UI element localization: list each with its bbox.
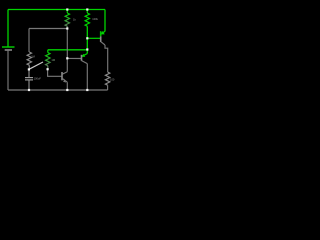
resistor R5 100 bbox=[105, 72, 114, 90]
resistor R4 1M bbox=[46, 50, 55, 69]
wire node C to Q2 base bbox=[67, 57, 81, 59]
wire R2 bottom to node B1 bbox=[86, 26, 88, 50]
transistor Q3 PNP (upper right) bbox=[101, 10, 108, 73]
svg-text:100k: 100k bbox=[92, 17, 98, 21]
node dot bottom rail / C1 bbox=[28, 89, 30, 91]
svg-text:100: 100 bbox=[110, 77, 115, 81]
battery V1 positive plate bbox=[2, 46, 15, 48]
svg-text:100uF: 100uF bbox=[34, 77, 42, 81]
wire node A horizontal (R1 bottom to R3 top) bbox=[29, 28, 67, 30]
wire Q3 base (node B1 to Q3) bbox=[87, 37, 100, 39]
battery V1 negative plate bbox=[5, 49, 12, 51]
wire left vertical (battery +) bbox=[7, 10, 9, 47]
transistor Q1 NPN bbox=[62, 58, 67, 90]
node dot top rail / R2 bbox=[86, 8, 88, 10]
transistor Q2 PNP (middle) bbox=[82, 50, 88, 90]
resistor R2 100k bbox=[85, 10, 99, 27]
node dot top rail / R1 bbox=[66, 8, 68, 10]
wire top rail bbox=[8, 9, 105, 11]
node dot bottom rail / Q1 emitter bbox=[66, 89, 68, 91]
node dot B1 upper (Q3 base tap) bbox=[86, 37, 88, 39]
node dot C (Q1 collector) bbox=[66, 57, 68, 59]
resistor R1 1k bbox=[65, 10, 76, 29]
svg-text:1M: 1M bbox=[51, 58, 55, 62]
switch S1 (open) lever bbox=[29, 62, 43, 69]
wire green mid rail (R4 top to node B1) bbox=[48, 49, 88, 51]
wire battery negative down bbox=[7, 51, 9, 90]
wire NPN base (switch node down and right) bbox=[48, 69, 62, 76]
resistor R3 1M bbox=[27, 52, 35, 69]
wire down to R3 bbox=[28, 29, 30, 53]
wire R1 bottom down to node C (crosses green) bbox=[66, 29, 68, 59]
svg-text:1M: 1M bbox=[31, 55, 35, 59]
wire bottom rail bbox=[8, 89, 108, 91]
capacitor C1 100uF bbox=[25, 69, 41, 90]
node dot A (R1 bottom) bbox=[66, 27, 68, 29]
node dot bottom rail / Q2 collector bbox=[86, 89, 88, 91]
switch S1 left post bbox=[28, 68, 30, 70]
node dot B1 lower (green mid rail) bbox=[86, 48, 88, 50]
switch S1 right post bbox=[47, 68, 49, 70]
